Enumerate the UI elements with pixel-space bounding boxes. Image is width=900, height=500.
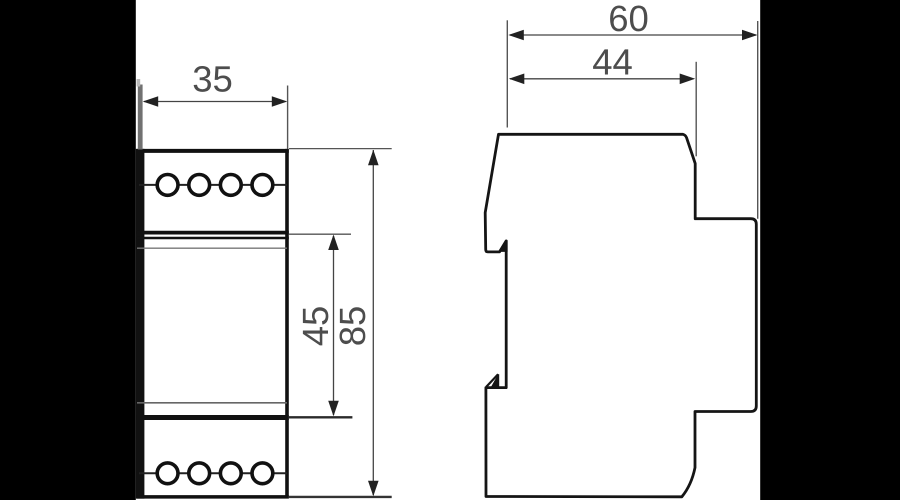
top hook barb fill [500, 240, 508, 252]
dim 44 right arrowhead [680, 74, 696, 85]
top terminal section thick line [137, 231, 289, 235]
bottom hook barb fill [491, 374, 498, 387]
dim 60 right arrowhead [742, 30, 758, 41]
svg-text:44: 44 [592, 42, 633, 83]
dim 45 top extension line [289, 233, 351, 235]
module right edge [285, 149, 289, 499]
top faceplate gray line [137, 247, 287, 249]
bottom terminal circles [157, 463, 273, 484]
dim 45 top arrowhead [328, 235, 339, 251]
bottom hook barb vertical [497, 374, 499, 387]
dim 85 top extension line [289, 148, 392, 150]
bottom terminal section thick line [137, 415, 289, 420]
module bottom edge [137, 495, 289, 499]
left black pillar bar [0, 0, 136, 500]
dim 45 bottom extension line [289, 416, 352, 418]
dim 60 right extension line [757, 21, 759, 219]
dim 45 bottom arrowhead [328, 401, 339, 417]
right black pillar bar [760, 0, 900, 500]
dim 35 left extension line (gray band) [138, 85, 143, 150]
dim 44 right extension line [695, 62, 697, 157]
dim 60 left extension line [506, 20, 508, 127]
front view body outline [137, 149, 289, 499]
dim 85 bottom arrowhead [368, 481, 379, 497]
dim 35 left extension line light tip [137, 79, 141, 87]
module left edge [136, 149, 145, 499]
svg-text:85: 85 [332, 306, 373, 347]
dim 85 line [372, 150, 374, 495]
dim 35 right extension line [287, 86, 289, 150]
dim 35 right arrowhead [272, 96, 288, 107]
dim 44 left arrowhead [509, 74, 525, 85]
module top edge [137, 149, 289, 153]
dim 45 line [333, 236, 335, 415]
top terminal wire line [139, 184, 287, 186]
dim 44 line [510, 78, 694, 80]
dim 60 line [510, 34, 756, 36]
dim 35 left arrowhead [143, 96, 159, 107]
dim 85 top arrowhead [368, 150, 379, 166]
side profile outline [485, 134, 756, 497]
svg-text:60: 60 [608, 0, 649, 39]
bottom hook barb diagonal [486, 374, 498, 387]
svg-text:45: 45 [295, 306, 336, 347]
bottom terminal wire line [139, 472, 287, 474]
dim 85 bottom extension line [289, 496, 392, 498]
bottom faceplate gray line [137, 402, 287, 404]
dim 35 line [144, 101, 286, 103]
svg-text:35: 35 [192, 59, 233, 100]
top terminal section medium line [137, 237, 289, 239]
dim 60 left arrowhead [508, 30, 524, 41]
top terminal circles [157, 175, 273, 196]
